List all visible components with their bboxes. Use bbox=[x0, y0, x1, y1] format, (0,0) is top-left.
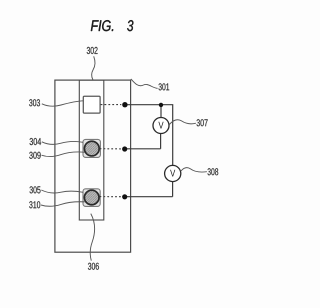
figure title FIG. 3 bbox=[91, 20, 113, 31]
leader 303 bbox=[42, 101, 84, 106]
element 304 outline square bbox=[83, 139, 100, 157]
element 305 outline square bbox=[83, 189, 100, 207]
leader 305 bbox=[41, 190, 83, 193]
outer rectangle 301 (device body) bbox=[55, 80, 131, 252]
inner strip 302 bbox=[79, 80, 104, 220]
label 305 bbox=[30, 186, 41, 193]
leader 302 bbox=[92, 56, 95, 79]
leader 309 bbox=[42, 152, 85, 157]
leader 310 bbox=[41, 202, 85, 207]
wire V1 bottom lead bbox=[160, 133, 162, 148]
label 303 bbox=[29, 99, 40, 106]
wire V2 bottom lead bbox=[172, 182, 174, 197]
label 310 bbox=[29, 201, 40, 208]
label 302 bbox=[87, 47, 98, 54]
leader 307 bbox=[170, 120, 196, 125]
label 309 bbox=[29, 152, 40, 159]
wire row 1 to voltmeter branch bbox=[125, 105, 173, 166]
dashed probe line row 3 bbox=[100, 196, 122, 198]
voltmeter V1 (307) bbox=[153, 118, 169, 134]
wire row 3 bbox=[125, 196, 173, 198]
label 301 bbox=[159, 83, 170, 90]
junction node row 2 bbox=[122, 146, 127, 151]
leader 301 bbox=[131, 79, 158, 89]
junction node row 3 bbox=[122, 194, 127, 199]
element 310 hatched circle (in 305) bbox=[84, 190, 99, 205]
wire row 2 bbox=[125, 148, 161, 150]
label 304 bbox=[30, 138, 42, 145]
label 306 bbox=[88, 263, 99, 270]
leader 304 bbox=[42, 141, 83, 144]
wire V1 top lead bbox=[160, 105, 162, 118]
element 309 hatched circle (in 304) bbox=[84, 141, 99, 156]
dashed probe line row 2 bbox=[100, 148, 122, 150]
dashed probe line row 1 bbox=[101, 104, 122, 106]
square element 303 bbox=[83, 96, 100, 113]
leader 308 bbox=[181, 168, 207, 172]
label 308 bbox=[208, 168, 219, 175]
label 307 bbox=[197, 119, 208, 126]
voltmeter V2 (308) bbox=[165, 165, 181, 181]
junction node row 1 bbox=[122, 102, 127, 107]
leader 306 bbox=[90, 214, 94, 261]
junction node V1 branch bbox=[159, 103, 163, 107]
